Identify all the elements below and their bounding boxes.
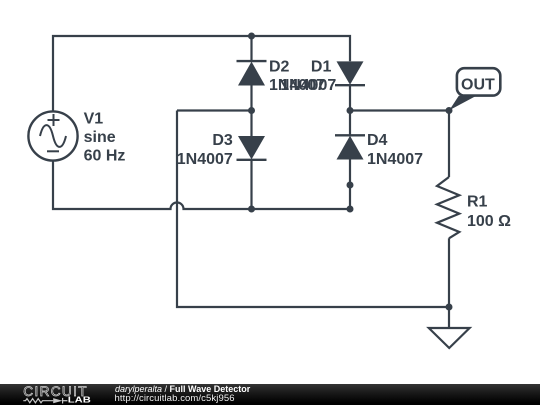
svg-text:1N4007: 1N4007 bbox=[367, 151, 423, 168]
svg-text:D4: D4 bbox=[367, 132, 388, 149]
svg-text:D1: D1 bbox=[311, 58, 332, 75]
svg-text:V1: V1 bbox=[84, 110, 104, 127]
svg-text:D3: D3 bbox=[212, 132, 233, 149]
svg-text:1N4007: 1N4007 bbox=[280, 77, 336, 94]
svg-text:R1: R1 bbox=[467, 194, 488, 211]
svg-text:OUT: OUT bbox=[461, 76, 495, 93]
svg-text:1N4007: 1N4007 bbox=[177, 151, 233, 168]
svg-text:100 Ω: 100 Ω bbox=[467, 213, 511, 230]
svg-text:D2: D2 bbox=[269, 58, 290, 75]
svg-text:60 Hz: 60 Hz bbox=[84, 148, 126, 165]
svg-text:sine: sine bbox=[84, 129, 116, 146]
